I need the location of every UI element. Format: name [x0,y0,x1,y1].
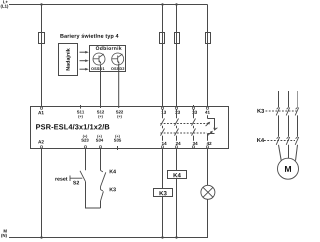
motor phase wire 3 [297,91,299,107]
relay coil link dashed line 2 [160,132,206,134]
aux contact K4 [101,170,106,186]
wire drop from L+ to A1 [41,5,43,107]
wire top supply rail L+ [9,4,208,6]
wire OSSD2 output to S22 [118,64,120,108]
fuse F2 on 13 wire [160,33,165,44]
terminal S34 [99,146,101,148]
K3 aux label [110,188,116,192]
terminal S11 [80,105,82,109]
S2 label [73,181,79,185]
K4 aux label [110,170,116,174]
wire S23 down to reset switch [85,148,87,170]
terminal A2 [40,146,42,148]
K4 main contact pole 1 [276,137,281,161]
motor phase wire 2 [288,91,290,107]
safety relay main box [31,107,229,149]
relay coil link dashed line 1 [160,123,209,125]
relay contact 33-34 [192,109,196,141]
wire 42 down to indicator lamp [207,148,209,185]
aux contact K3 [101,186,104,201]
K3 contactor label [257,109,264,113]
terminal 34 [192,146,194,148]
junction dot on M rail at A2 [40,236,42,238]
terminal S23 [84,146,86,148]
motor M [278,158,299,179]
K3 main contact pole 2 [286,107,290,136]
terminal 24 [175,146,177,148]
junction dot on M rail at K3 [161,236,163,238]
K3 actuation dashed link [266,110,297,112]
wire OSSD1 output to S12 [100,64,102,108]
junction dot on M rail at K4 [175,236,177,238]
contactor coil K3 [154,189,173,197]
wire S34 down to K4 aux contact [100,148,102,170]
junction dot on L+ rail at 13 drop [161,3,163,5]
relay NC contact 41-42 [206,115,218,141]
wire A2 to M rail [41,148,43,238]
light beam arrow 2 [80,59,89,62]
terminal 13 [161,107,163,109]
OSSD1 output transistor [93,53,105,65]
terminal 42 [206,146,208,148]
light beam arrow 1 [80,51,89,54]
terminal 23 [175,107,177,109]
fuse F1 on A1 supply wire [39,33,45,44]
junction dot on L+ rail at 23 drop [175,3,177,5]
wire bottom return rail M [9,237,208,239]
receiver box Odbiornik [90,46,126,72]
wire K4 coil to M rail [176,179,178,238]
terminal 41 [206,107,208,109]
wire drop from L+ rail end to terminal 41 [207,5,209,107]
node L+ (L1) label [1,0,8,8]
contactor coil K4 [168,171,187,179]
terminal 33 [193,105,195,107]
node M (N) label [1,230,7,238]
wire K3 coil to M rail [162,197,164,238]
K3 main contact pole 1 [276,107,280,136]
K4 main contact pole 2 [286,137,290,158]
terminal S12 label [97,110,104,118]
wire lamp to M rail corner [207,199,209,237]
relay contact 13-14 [161,109,165,141]
terminal S22 label [116,110,123,118]
wire below S2 to K3 contact foot [86,182,101,208]
wire 14 down to K3 coil [162,148,164,189]
fuse F3 on 23 wire [175,33,180,44]
K4 contactor label [257,138,264,142]
fuse F4 on 41 wire [206,33,211,44]
terminal S35 [117,146,119,150]
motor phase wire 1 [278,91,280,107]
K3 main contact pole 3 [295,107,299,136]
OSSD2 label [111,67,124,70]
wire drop from L+ to terminal 13 [162,5,164,107]
terminal 14 [161,146,163,148]
relay type label PSR-ESL4/3x1/1x2/B [36,124,109,130]
wire K3 aux contact to bottom loop [100,201,102,208]
light beam arrow 3 [80,68,89,71]
OSSD1 label [91,67,104,70]
junction dot on L+ rail at A1 drop [40,3,42,5]
indicator lamp [201,185,215,199]
K4 main contact pole 3 [295,137,299,161]
relay contact 23-24 [175,109,179,141]
light curtain title Bariery swietlne typ 4 [60,34,118,39]
OSSD2 output transistor [112,53,124,65]
reset switch S2 [70,171,86,182]
terminal A1 [40,107,42,109]
transmitter box Nadajnik [59,44,78,76]
wire 24 down to K4 coil [176,148,178,171]
wire drop from L+ to terminal 23 [176,5,178,107]
K4 actuation dashed link [264,140,295,142]
reset label [55,177,67,180]
